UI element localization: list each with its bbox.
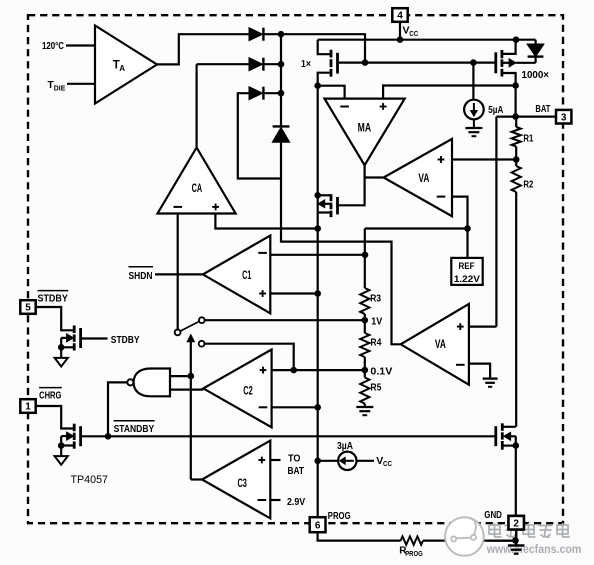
node Q1 drain: [314, 82, 321, 89]
transistor M4: [501, 423, 504, 431]
node D1 junction: [278, 31, 285, 38]
ground triangle below Q3: [55, 358, 68, 367]
wire C2 output to NAND input: [170, 389, 203, 391]
diode D3: [249, 87, 262, 99]
pin 3 BAT: [556, 110, 571, 124]
wire pin4 stem: [399, 22, 401, 40]
wire NAND input 1: [170, 375, 191, 377]
wire C2+ input: [272, 369, 294, 371]
node Q2 drain / MA+: [512, 82, 519, 89]
wire BAT down to VA2+: [495, 117, 497, 327]
svg-text:CA: CA: [192, 183, 203, 195]
node gate bus / 5uA tap: [470, 59, 477, 66]
svg-text:MA: MA: [358, 122, 372, 134]
wire R2 bottom to M4 drain: [515, 192, 517, 427]
wire RPROG to GND node: [423, 539, 515, 541]
wire MA output to M3 gate: [338, 165, 365, 205]
wire VA1- to REF node: [452, 197, 468, 229]
pin 4 VCC: [392, 8, 407, 22]
svg-text:3: 3: [561, 112, 567, 123]
wire rail corner down to gate bus: [364, 34, 366, 62]
svg-text:SHDN: SHDN: [129, 271, 153, 282]
voltage reference REF 1.22V: [451, 258, 482, 285]
wire sense rail vertical: [317, 86, 319, 517]
comparator C3: [202, 441, 270, 519]
svg-text:5µA: 5µA: [488, 105, 503, 116]
watermark logo circle: [445, 517, 484, 556]
wire C2- to sense rail: [272, 406, 318, 408]
svg-text:C2: C2: [243, 385, 253, 397]
svg-text:1: 1: [25, 402, 31, 413]
wire CA output to D2 anode: [197, 63, 250, 65]
svg-text:0.1V: 0.1V: [370, 366, 392, 377]
node 0.1V tap: [362, 367, 369, 374]
wire D4 anode down and over to VA2 output: [281, 142, 401, 344]
wire Q3 source to ground: [60, 347, 62, 358]
op-amp MA: [325, 99, 405, 166]
wire C1- to REF chain: [270, 254, 365, 256]
svg-text:3µA: 3µA: [337, 441, 353, 452]
wire C3+ stub: [270, 459, 280, 461]
node Q4 source: [58, 442, 65, 449]
wire pin5 to Q3 drain: [36, 307, 74, 330]
diode D2: [249, 58, 262, 70]
comparator C1: [203, 236, 270, 314]
wire NAND output: [108, 382, 127, 436]
svg-text:R1: R1: [523, 134, 533, 145]
current source I2 3uA: [338, 452, 356, 470]
transistor M3: [330, 194, 333, 201]
svg-text:CC: CC: [409, 29, 418, 38]
wire D3 cathode to rail: [264, 92, 281, 94]
node gate bus / diode rail: [362, 59, 369, 66]
ground at VA2-: [483, 377, 498, 379]
node 1000x source junction: [513, 36, 520, 43]
wire MA- input from drain rail: [318, 86, 345, 99]
wire Q4 source to ground: [60, 446, 62, 457]
resistor R3: [360, 288, 369, 314]
switch select arm arrow: [190, 341, 192, 480]
transistor Q1 1x: [330, 50, 333, 58]
ground symbol at pin2: [508, 544, 525, 546]
node C2+ junction: [290, 367, 297, 374]
svg-text:REF: REF: [459, 261, 475, 272]
wire 1V tap to switch: [205, 319, 365, 321]
wire M4 source to GND pin: [515, 446, 517, 516]
node pin4-rail junction: [397, 36, 404, 43]
node Q3 source: [58, 344, 65, 351]
switch common contact: [175, 330, 181, 336]
wire C1+ to sense rail: [270, 292, 317, 294]
svg-text:TP4057: TP4057: [71, 474, 109, 486]
current source I1 5uA: [472, 63, 474, 100]
wire Q2 drain to BAT node: [512, 113, 519, 120]
wire SHDN to C1 output: [155, 273, 203, 275]
node D2 junction: [278, 61, 285, 68]
wire R5 to ground: [364, 404, 366, 407]
svg-text:1×: 1×: [301, 59, 311, 70]
op-amp VA2: [401, 304, 469, 385]
svg-text:PROG: PROG: [328, 511, 351, 522]
node REF/VA1-: [464, 225, 471, 232]
wire pin2 to ground: [515, 530, 517, 545]
wire Q3 gate: [81, 337, 108, 339]
svg-text:DIE: DIE: [54, 84, 66, 93]
svg-text:GND: GND: [484, 510, 502, 521]
svg-text:R3: R3: [370, 294, 381, 305]
node NAND output on STANDBY wire: [105, 433, 112, 440]
svg-text:C1: C1: [242, 270, 252, 282]
node R1/R2: [513, 156, 520, 163]
NAND gate U1 (left facing): [134, 369, 170, 397]
watermark CJK text: [489, 523, 570, 538]
wire rail from D1 node down to D4: [280, 34, 282, 126]
wire C3- stub: [270, 499, 280, 501]
wire STANDBY select vertical to C3 output: [191, 478, 203, 480]
resistor R4: [360, 333, 369, 357]
node M4 source: [513, 442, 520, 449]
wire pin1 to Q4 drain: [36, 406, 74, 429]
transistor Q4 CHRG pulldown: [73, 424, 76, 432]
svg-text:STDBY: STDBY: [38, 294, 69, 305]
svg-text:CHRG: CHRG: [39, 391, 61, 402]
diode D1: [249, 28, 262, 40]
svg-text:TO: TO: [288, 454, 301, 465]
svg-text:A: A: [119, 64, 125, 73]
svg-text:1.22V: 1.22V: [454, 274, 481, 285]
wire VA1 output to MA output net: [365, 176, 384, 178]
svg-text:VA: VA: [435, 339, 446, 351]
svg-text:2: 2: [513, 518, 519, 529]
wire TDIE to TA: [67, 83, 95, 85]
svg-text:R2: R2: [523, 180, 533, 191]
transistor Q2 1000x: [500, 50, 503, 58]
wire REF node: [365, 227, 468, 229]
svg-text:1000×: 1000×: [522, 70, 550, 81]
node C1-/REF chain: [362, 252, 369, 259]
transistor Q3 STDBY pulldown: [73, 326, 76, 334]
pin 2 GND: [509, 516, 524, 530]
diode D4 (pointing up): [273, 125, 290, 127]
node D3 junction: [278, 90, 285, 97]
wire rail to 3uA: [318, 460, 339, 462]
svg-text:BAT: BAT: [535, 104, 550, 115]
comparator C2: [203, 350, 271, 428]
wire REF chain top: [364, 229, 366, 289]
svg-text:www.elecfans.com: www.elecfans.com: [486, 542, 581, 556]
wire D2 cathode to rail: [264, 63, 281, 65]
svg-text:120°C: 120°C: [42, 41, 64, 52]
resistor RPROG: [401, 536, 423, 544]
svg-text:6: 6: [315, 520, 321, 531]
wire 3uA to VCC: [357, 460, 375, 462]
wire TA output to D1 anode: [157, 34, 250, 64]
node CA+ junction: [314, 225, 321, 232]
resistor R1: [515, 117, 517, 127]
svg-text:BAT: BAT: [288, 466, 305, 477]
ground below 5uA: [465, 127, 482, 129]
wire C2+ to 0.1V tap: [294, 369, 365, 371]
svg-text:5: 5: [25, 303, 31, 314]
wire pin6 to RPROG: [318, 532, 401, 540]
op-amp VA1: [384, 139, 452, 216]
wire VCC rail: [318, 39, 536, 41]
resistor R2: [515, 160, 517, 167]
wire MA+ input from Q2 drain: [383, 86, 515, 99]
svg-text:2.9V: 2.9V: [287, 497, 305, 508]
svg-text:4: 4: [397, 11, 403, 22]
node 1V tap: [362, 317, 369, 324]
wire lower contact to C2+ node: [205, 344, 294, 370]
pin 2 GND redrawn above watermark: [509, 516, 524, 530]
node M3 drain on rail: [314, 192, 321, 199]
switch contact to 1V: [199, 317, 205, 323]
op-amp TA (thermal amplifier): [95, 26, 157, 104]
resistor R5: [364, 370, 366, 377]
wire D1 cathode to gate-drive rail: [264, 33, 366, 35]
wire VA2- to ground: [469, 364, 490, 379]
svg-text:PROG: PROG: [405, 549, 423, 558]
wire REF stem: [466, 229, 468, 258]
ground triangle below Q4: [55, 456, 68, 465]
svg-text:STANDBY: STANDBY: [114, 424, 155, 435]
node GND junction: [512, 537, 519, 544]
svg-text:STDBY: STDBY: [111, 335, 140, 346]
pin 6 PROG: [310, 517, 326, 532]
wire BAT node to pin 3: [496, 115, 556, 117]
ground below R5: [356, 406, 373, 408]
wire CA output up: [196, 64, 198, 147]
node 3uA tap: [314, 458, 321, 465]
wire VA2 feed up to D3 anode: [238, 93, 282, 178]
svg-text:T: T: [48, 80, 54, 91]
svg-text:1V: 1V: [371, 317, 382, 328]
wire CA+ to sense rail: [215, 214, 317, 229]
diode D5 body diode: [534, 40, 536, 45]
wire R3-R4: [364, 320, 366, 333]
switch contact to 0.1V: [199, 341, 205, 347]
wire VA1+ to R1R2 tap: [452, 158, 516, 160]
wire CA- down to switch: [177, 214, 179, 330]
node NAND in1: [188, 373, 195, 380]
svg-text:R4: R4: [370, 338, 381, 349]
wire STANDBY net (Q4 gate to M4 gate): [81, 435, 496, 437]
svg-text:CC: CC: [383, 459, 392, 468]
switch lever: [180, 321, 199, 331]
wire VA2+ from BAT: [469, 326, 497, 328]
svg-text:C3: C3: [237, 478, 247, 490]
op-amp CA: [158, 148, 236, 214]
wire 120C to TA: [66, 44, 95, 46]
svg-text:R5: R5: [370, 383, 381, 394]
svg-text:VA: VA: [418, 173, 429, 185]
node C2-: [314, 404, 321, 411]
pin 5 STDBY: [20, 300, 35, 314]
pin 1 CHRG: [20, 399, 35, 413]
node C1+: [314, 290, 321, 297]
wire gate bus between Q1 and Q2: [338, 61, 497, 63]
